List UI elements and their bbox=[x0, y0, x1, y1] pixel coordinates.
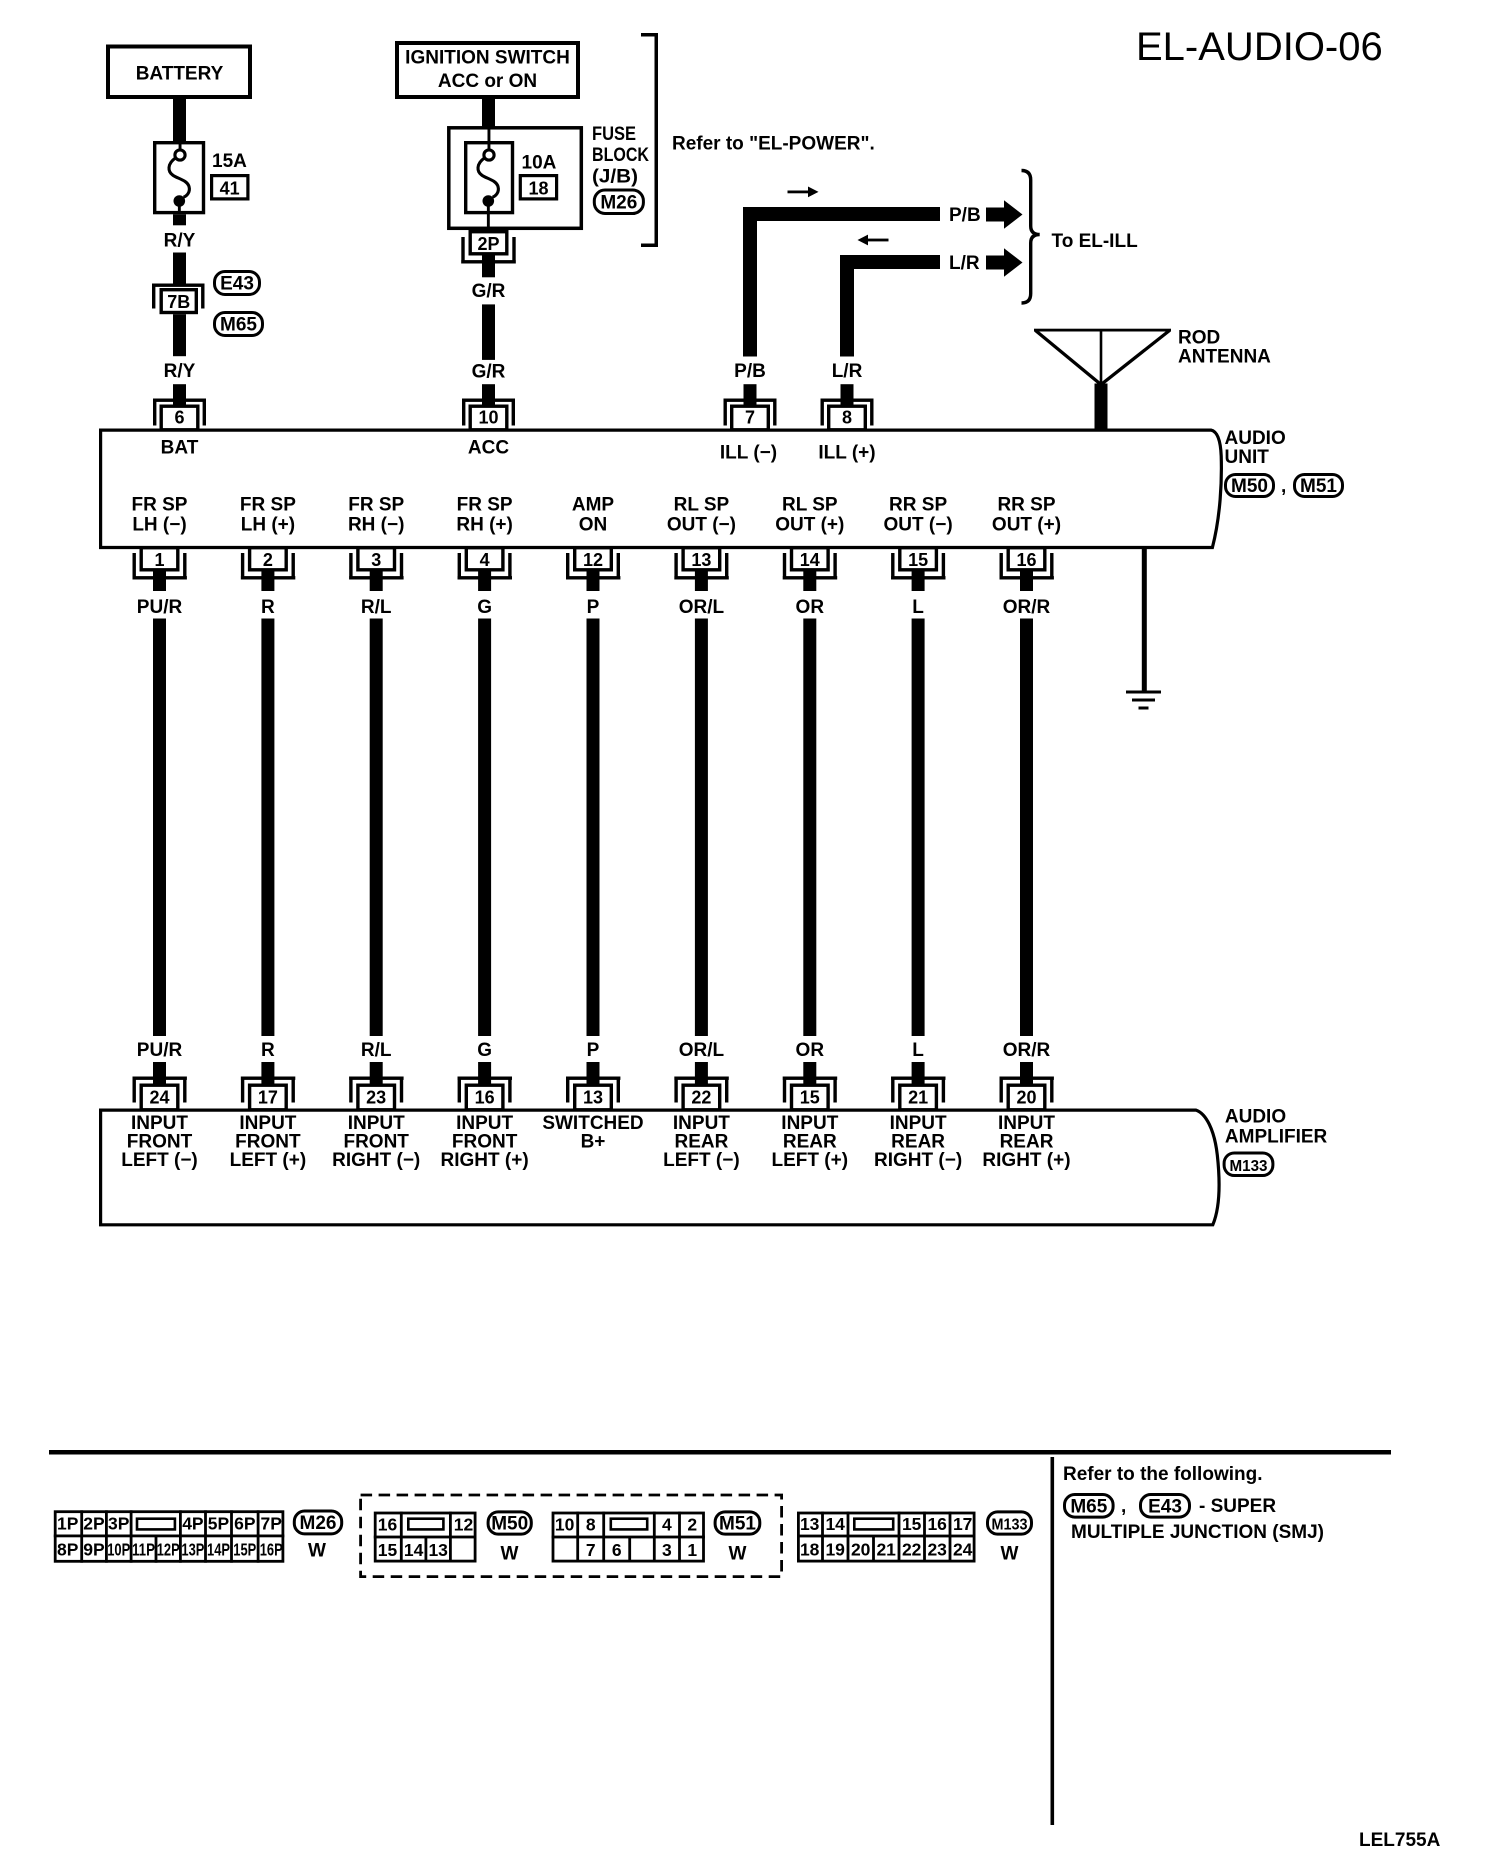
svg-text:M133: M133 bbox=[1230, 1158, 1268, 1175]
svg-text:R/Y: R/Y bbox=[164, 231, 196, 252]
svg-text:15: 15 bbox=[800, 1087, 820, 1107]
svg-text:10: 10 bbox=[478, 408, 498, 428]
svg-text:R/L: R/L bbox=[361, 597, 392, 618]
svg-text:AMP: AMP bbox=[572, 495, 615, 516]
svg-text:M26: M26 bbox=[600, 192, 637, 213]
svg-text:P: P bbox=[587, 1040, 600, 1061]
svg-text:,: , bbox=[1281, 476, 1286, 497]
svg-text:20: 20 bbox=[1016, 1087, 1036, 1107]
svg-text:LEFT (−): LEFT (−) bbox=[121, 1150, 198, 1171]
svg-text:OR/L: OR/L bbox=[679, 1040, 725, 1061]
svg-text:M133: M133 bbox=[992, 1517, 1028, 1534]
svg-text:LEFT (−): LEFT (−) bbox=[663, 1150, 740, 1171]
svg-text:L: L bbox=[912, 1040, 924, 1061]
svg-text:E43: E43 bbox=[220, 274, 254, 295]
svg-text:RH (+): RH (+) bbox=[456, 515, 512, 536]
svg-text:22: 22 bbox=[902, 1540, 922, 1560]
svg-text:15A: 15A bbox=[212, 151, 247, 172]
svg-text:RIGHT (−): RIGHT (−) bbox=[332, 1150, 420, 1171]
svg-text:M50: M50 bbox=[491, 1514, 528, 1535]
svg-text:7P: 7P bbox=[260, 1513, 282, 1533]
svg-text:OR: OR bbox=[796, 597, 825, 618]
svg-text:AUDIO: AUDIO bbox=[1225, 428, 1286, 449]
svg-text:12P: 12P bbox=[157, 1540, 180, 1560]
svg-text:OUT (−): OUT (−) bbox=[667, 515, 736, 536]
svg-text:M26: M26 bbox=[300, 1513, 337, 1534]
svg-text:21: 21 bbox=[876, 1540, 896, 1560]
svg-text:RL SP: RL SP bbox=[782, 495, 838, 516]
svg-text:LEFT (+): LEFT (+) bbox=[230, 1150, 307, 1171]
svg-text:4P: 4P bbox=[182, 1513, 204, 1533]
svg-text:OR/R: OR/R bbox=[1003, 597, 1051, 618]
svg-text:10: 10 bbox=[555, 1515, 575, 1535]
svg-text:13: 13 bbox=[428, 1540, 448, 1560]
svg-text:PU/R: PU/R bbox=[137, 597, 183, 618]
svg-text:AMPLIFIER: AMPLIFIER bbox=[1225, 1127, 1328, 1148]
svg-text:OR: OR bbox=[796, 1040, 825, 1061]
svg-text:OUT (−): OUT (−) bbox=[884, 515, 953, 536]
svg-text:14: 14 bbox=[800, 550, 820, 570]
svg-text:13: 13 bbox=[800, 1514, 820, 1534]
svg-text:BAT: BAT bbox=[161, 438, 199, 459]
svg-text:(J/B): (J/B) bbox=[592, 166, 638, 187]
svg-text:E43: E43 bbox=[1148, 1496, 1182, 1517]
svg-text:15: 15 bbox=[902, 1514, 922, 1534]
svg-text:AUDIO: AUDIO bbox=[1225, 1107, 1286, 1128]
svg-text:4: 4 bbox=[662, 1515, 672, 1535]
svg-text:8: 8 bbox=[586, 1515, 596, 1535]
svg-text:20: 20 bbox=[851, 1540, 871, 1560]
svg-text:W: W bbox=[501, 1544, 519, 1565]
svg-text:3: 3 bbox=[371, 550, 381, 570]
svg-text:L: L bbox=[912, 597, 924, 618]
svg-text:2: 2 bbox=[687, 1515, 697, 1535]
svg-text:12: 12 bbox=[583, 550, 603, 570]
svg-text:RR SP: RR SP bbox=[889, 495, 947, 516]
svg-text:BLOCK: BLOCK bbox=[592, 145, 649, 166]
svg-text:FR SP: FR SP bbox=[240, 495, 296, 516]
svg-text:EL-AUDIO-06: EL-AUDIO-06 bbox=[1136, 25, 1383, 69]
svg-text:5P: 5P bbox=[208, 1513, 230, 1533]
svg-text:RR SP: RR SP bbox=[997, 495, 1055, 516]
svg-text:M50: M50 bbox=[1231, 476, 1268, 497]
svg-text:B+: B+ bbox=[581, 1132, 606, 1153]
svg-text:16P: 16P bbox=[260, 1540, 283, 1560]
svg-text:ANTENNA: ANTENNA bbox=[1178, 347, 1271, 368]
svg-text:17: 17 bbox=[258, 1087, 278, 1107]
svg-text:24: 24 bbox=[953, 1540, 973, 1560]
svg-text:- SUPER: - SUPER bbox=[1199, 1496, 1276, 1517]
svg-text:RH (−): RH (−) bbox=[348, 515, 404, 536]
svg-text:OUT (+): OUT (+) bbox=[775, 515, 844, 536]
svg-text:8P: 8P bbox=[57, 1540, 79, 1560]
svg-text:16: 16 bbox=[927, 1514, 947, 1534]
svg-text:7: 7 bbox=[586, 1540, 596, 1560]
svg-text:8: 8 bbox=[842, 408, 852, 428]
svg-text:2: 2 bbox=[263, 550, 273, 570]
svg-text:9P: 9P bbox=[83, 1540, 105, 1560]
svg-text:G/R: G/R bbox=[472, 362, 506, 383]
svg-text:MULTIPLE JUNCTION (SMJ): MULTIPLE JUNCTION (SMJ) bbox=[1071, 1522, 1324, 1543]
svg-text:ILL (−): ILL (−) bbox=[720, 443, 777, 464]
svg-text:10A: 10A bbox=[522, 153, 557, 174]
svg-text:13: 13 bbox=[583, 1087, 603, 1107]
svg-text:RIGHT (+): RIGHT (+) bbox=[441, 1150, 529, 1171]
svg-text:M65: M65 bbox=[220, 315, 257, 336]
svg-text:W: W bbox=[308, 1541, 326, 1562]
svg-text:P/B: P/B bbox=[949, 205, 981, 226]
svg-text:16: 16 bbox=[378, 1515, 398, 1535]
svg-text:OR/L: OR/L bbox=[679, 597, 725, 618]
svg-text:R/L: R/L bbox=[361, 1040, 392, 1061]
svg-text:1P: 1P bbox=[57, 1513, 79, 1533]
svg-text:24: 24 bbox=[149, 1087, 169, 1107]
svg-text:11P: 11P bbox=[132, 1540, 155, 1560]
svg-text:LEFT (+): LEFT (+) bbox=[772, 1150, 849, 1171]
svg-text:P/B: P/B bbox=[734, 361, 766, 382]
svg-text:6: 6 bbox=[612, 1540, 622, 1560]
svg-text:OR/R: OR/R bbox=[1003, 1040, 1051, 1061]
svg-text:23: 23 bbox=[366, 1087, 386, 1107]
svg-text:M51: M51 bbox=[1300, 476, 1337, 497]
svg-text:M51: M51 bbox=[719, 1514, 756, 1535]
svg-text:13P: 13P bbox=[181, 1540, 204, 1560]
svg-text:14P: 14P bbox=[207, 1540, 230, 1560]
svg-text:BATTERY: BATTERY bbox=[136, 64, 224, 85]
svg-text:3P: 3P bbox=[108, 1513, 130, 1533]
svg-text:14: 14 bbox=[825, 1514, 845, 1534]
svg-text:ACC or ON: ACC or ON bbox=[438, 71, 537, 92]
svg-text:Refer to "EL-POWER".: Refer to "EL-POWER". bbox=[672, 134, 875, 155]
svg-text:RIGHT (−): RIGHT (−) bbox=[874, 1150, 962, 1171]
svg-text:7B: 7B bbox=[167, 292, 190, 312]
svg-text:R/Y: R/Y bbox=[164, 361, 196, 382]
svg-text:15P: 15P bbox=[233, 1540, 256, 1560]
svg-text:M65: M65 bbox=[1070, 1496, 1107, 1517]
svg-text:UNIT: UNIT bbox=[1225, 447, 1270, 468]
svg-text:W: W bbox=[1001, 1544, 1019, 1565]
svg-text:IGNITION SWITCH: IGNITION SWITCH bbox=[405, 48, 570, 69]
svg-text:16: 16 bbox=[475, 1087, 495, 1107]
svg-text:17: 17 bbox=[953, 1514, 972, 1534]
svg-text:PU/R: PU/R bbox=[137, 1040, 183, 1061]
svg-text:R: R bbox=[261, 597, 275, 618]
svg-text:OUT (+): OUT (+) bbox=[992, 515, 1061, 536]
svg-text:G: G bbox=[477, 597, 492, 618]
svg-text:14: 14 bbox=[404, 1540, 424, 1560]
svg-text:41: 41 bbox=[220, 179, 240, 199]
svg-text:ACC: ACC bbox=[468, 438, 509, 459]
svg-text:10P: 10P bbox=[107, 1540, 130, 1560]
svg-text:RL SP: RL SP bbox=[674, 495, 730, 516]
svg-text:,: , bbox=[1121, 1496, 1126, 1517]
svg-text:15: 15 bbox=[908, 550, 928, 570]
svg-text:1: 1 bbox=[154, 550, 164, 570]
svg-text:7: 7 bbox=[745, 408, 755, 428]
svg-text:To EL-ILL: To EL-ILL bbox=[1052, 231, 1139, 252]
svg-text:18: 18 bbox=[528, 179, 548, 199]
svg-text:RIGHT (+): RIGHT (+) bbox=[982, 1150, 1070, 1171]
svg-text:2P: 2P bbox=[83, 1513, 105, 1533]
svg-text:FUSE: FUSE bbox=[592, 124, 636, 145]
svg-text:1: 1 bbox=[687, 1540, 697, 1560]
svg-text:P: P bbox=[587, 597, 600, 618]
svg-text:4: 4 bbox=[480, 550, 490, 570]
svg-text:FR SP: FR SP bbox=[348, 495, 404, 516]
svg-text:ROD: ROD bbox=[1178, 328, 1220, 349]
svg-text:Refer to the following.: Refer to the following. bbox=[1063, 1464, 1263, 1485]
svg-text:G: G bbox=[477, 1040, 492, 1061]
svg-text:23: 23 bbox=[927, 1540, 947, 1560]
svg-text:R: R bbox=[261, 1040, 275, 1061]
svg-text:15: 15 bbox=[378, 1540, 398, 1560]
svg-text:21: 21 bbox=[908, 1087, 928, 1107]
svg-text:12: 12 bbox=[454, 1515, 474, 1535]
svg-text:LH (+): LH (+) bbox=[241, 515, 295, 536]
svg-text:ILL (+): ILL (+) bbox=[818, 443, 875, 464]
svg-text:FR SP: FR SP bbox=[132, 495, 188, 516]
svg-text:22: 22 bbox=[691, 1087, 711, 1107]
svg-text:6P: 6P bbox=[234, 1513, 256, 1533]
svg-text:3: 3 bbox=[662, 1540, 672, 1560]
svg-text:LEL755A: LEL755A bbox=[1359, 1830, 1441, 1851]
svg-text:19: 19 bbox=[825, 1540, 845, 1560]
svg-text:W: W bbox=[729, 1544, 747, 1565]
svg-text:FR SP: FR SP bbox=[457, 495, 513, 516]
svg-text:16: 16 bbox=[1016, 550, 1036, 570]
svg-text:18: 18 bbox=[800, 1540, 820, 1560]
svg-text:13: 13 bbox=[691, 550, 711, 570]
svg-text:G/R: G/R bbox=[472, 281, 506, 302]
svg-text:LH (−): LH (−) bbox=[132, 515, 186, 536]
svg-text:L/R: L/R bbox=[832, 361, 863, 382]
svg-text:ON: ON bbox=[579, 515, 608, 536]
svg-text:2P: 2P bbox=[477, 234, 499, 254]
svg-text:6: 6 bbox=[174, 408, 184, 428]
svg-text:L/R: L/R bbox=[949, 253, 980, 274]
